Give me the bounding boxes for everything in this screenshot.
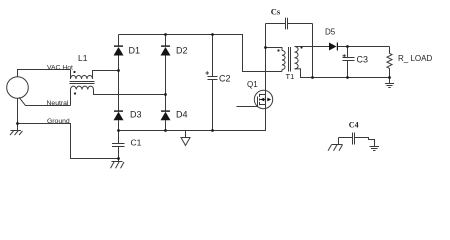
svg-text:Q1: Q1: [247, 80, 258, 89]
svg-text:D4: D4: [176, 109, 188, 119]
svg-text:T1: T1: [286, 72, 295, 81]
svg-text:Cs: Cs: [271, 6, 281, 16]
svg-text:D1: D1: [129, 46, 141, 56]
svg-text:D3: D3: [130, 109, 142, 119]
svg-text:L1: L1: [78, 53, 88, 63]
svg-text:Ground: Ground: [47, 118, 70, 125]
svg-text:R_ LOAD: R_ LOAD: [398, 54, 432, 63]
svg-text:Neutral: Neutral: [47, 100, 69, 107]
svg-text:C2: C2: [219, 73, 231, 83]
svg-text:C3: C3: [357, 54, 369, 64]
svg-text:VAC Hot: VAC Hot: [47, 65, 73, 72]
svg-text:C1: C1: [131, 138, 142, 148]
svg-text:D5: D5: [325, 27, 336, 36]
svg-text:C4: C4: [349, 121, 359, 130]
svg-text:D2: D2: [176, 46, 188, 56]
